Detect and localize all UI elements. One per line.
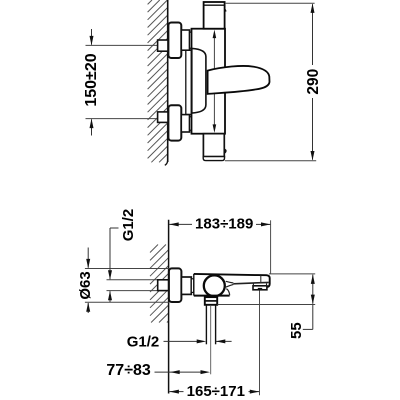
dimension 77÷83: [155, 371, 202, 373]
mixer body (upper view): [192, 29, 226, 134]
svg-text:55: 55: [288, 322, 305, 339]
dimension Ø63: [87, 248, 89, 268]
top knob: [204, 2, 225, 29]
aerator extension line: [259, 291, 261, 396]
nut step lower: [190, 117, 192, 130]
shower outlet collar: [205, 297, 217, 305]
extension line spout top (55): [269, 273, 315, 275]
extension line stub top: [107, 279, 158, 281]
body left edge: [193, 274, 195, 296]
spout panel line: [260, 276, 262, 283]
extension line flange bottom: [85, 301, 169, 303]
internal dimension line: [213, 34, 215, 128]
escutcheon flange lower: [168, 105, 181, 140]
svg-text:G1/2: G1/2: [120, 209, 137, 242]
wall hatching (upper view): [148, 0, 168, 162]
extension line upper inlet: [86, 44, 158, 46]
extension line top (290): [225, 2, 315, 4]
escutcheon flange upper: [168, 23, 181, 59]
outlet nub: [224, 148, 226, 153]
extension line stub bottom: [107, 290, 158, 292]
svg-text:290: 290: [305, 69, 322, 95]
lever handle: [208, 66, 270, 94]
supply stub (lower view): [158, 280, 169, 291]
cartridge circle: [204, 275, 225, 296]
spout neck upper line: [226, 281, 234, 283]
mixer body and spout (lower view): [194, 274, 270, 296]
cartridge housing tab: [192, 48, 206, 113]
wall face (upper view): [167, 0, 169, 162]
connecting bar: [186, 50, 192, 114]
dimension 55: [312, 275, 314, 304]
body top edge and spout tip: [194, 274, 270, 287]
spout neck lower line: [226, 284, 234, 287]
dimension 183÷189: [169, 223, 192, 225]
connection nut lower: [181, 115, 189, 132]
extension line collar bottom (55): [217, 304, 315, 306]
dimension G1/2 shower: [164, 340, 198, 342]
wall hatching (lower view): [150, 245, 169, 323]
nut step (lower view): [191, 279, 194, 293]
dimension 150±20 line upper segment: [91, 29, 93, 45]
svg-text:165÷171: 165÷171: [187, 383, 245, 400]
extension line flange top: [85, 268, 169, 270]
dimension 290 line: [312, 4, 314, 65]
svg-text:150±20: 150±20: [83, 53, 100, 106]
body bottom edge: [194, 295, 230, 297]
outlet spout bottom: [203, 134, 224, 157]
svg-text:77÷83: 77÷83: [106, 362, 150, 379]
connection nut (lower view): [181, 277, 191, 294]
escutcheon flange (lower view): [169, 268, 182, 302]
svg-text:Ø63: Ø63: [77, 271, 94, 299]
nut step upper: [190, 32, 192, 48]
dimension 150±20 line lower segment: [91, 119, 93, 135]
knob tick: [225, 9, 226, 12]
svg-text:G1/2: G1/2: [127, 333, 160, 350]
collar mid line: [205, 300, 217, 302]
extension line bottom (290): [225, 160, 316, 162]
extension line spout tip: [270, 220, 272, 273]
shower pipe right edge: [215, 305, 217, 345]
dimension G1/2 supply: [110, 227, 119, 229]
spout underside: [233, 282, 268, 283]
extension line lower inlet: [86, 118, 158, 120]
supply stub upper: [158, 40, 168, 51]
wall face (lower view): [168, 220, 170, 394]
aerator: [253, 286, 267, 290]
shower pipe left edge: [205, 305, 207, 345]
knob cap line: [204, 4, 225, 6]
supply stub lower: [158, 112, 168, 123]
circle-body fillet: [226, 289, 229, 296]
svg-text:183÷189: 183÷189: [195, 216, 253, 233]
pipe centerline: [210, 306, 212, 374]
dimension 165÷171: [169, 391, 183, 393]
connection nut upper: [181, 30, 189, 50]
